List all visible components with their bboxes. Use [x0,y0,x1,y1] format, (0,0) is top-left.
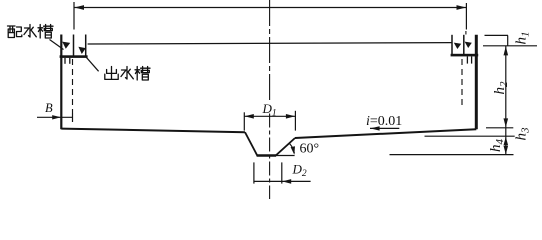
svg-text:B: B [45,101,53,115]
svg-text:h4: h4 [488,139,506,153]
svg-text:D1: D1 [262,101,277,119]
svg-text:D2: D2 [292,162,307,180]
svg-text:60°: 60° [300,142,320,157]
svg-text:h2: h2 [492,81,510,95]
svg-text:h1: h1 [514,32,532,45]
svg-text:h3: h3 [514,127,532,141]
svg-text:i=0.01: i=0.01 [366,114,402,129]
